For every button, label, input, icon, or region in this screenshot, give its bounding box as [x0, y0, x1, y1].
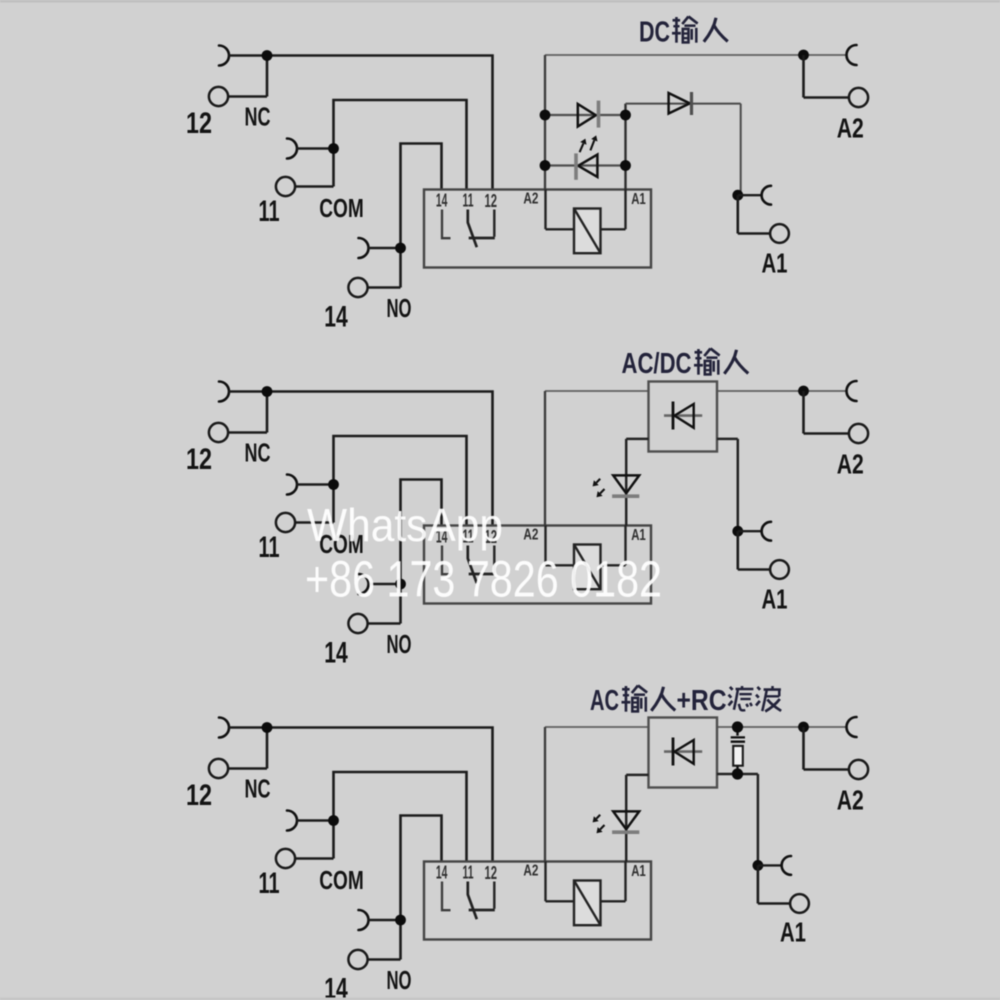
svg-text:AC: AC [590, 685, 619, 717]
svg-text:WhatsApp: WhatsApp [307, 499, 503, 551]
svg-text:A1: A1 [762, 248, 788, 279]
svg-text:A1: A1 [762, 584, 788, 615]
svg-text:AC/DC: AC/DC [622, 348, 692, 380]
svg-text:+RC: +RC [677, 685, 727, 717]
svg-text:A2: A2 [837, 113, 864, 144]
svg-text:A2: A2 [837, 785, 864, 816]
svg-text:A1: A1 [780, 917, 806, 948]
svg-text:DC: DC [639, 17, 670, 49]
svg-text:+86 173 7826 0182: +86 173 7826 0182 [305, 551, 662, 608]
svg-text:A2: A2 [837, 449, 864, 480]
